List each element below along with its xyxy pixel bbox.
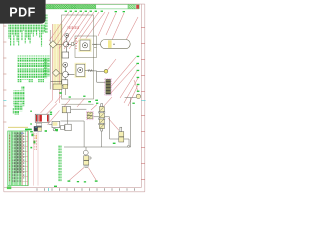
svg-text:PDF: PDF	[9, 6, 36, 20]
